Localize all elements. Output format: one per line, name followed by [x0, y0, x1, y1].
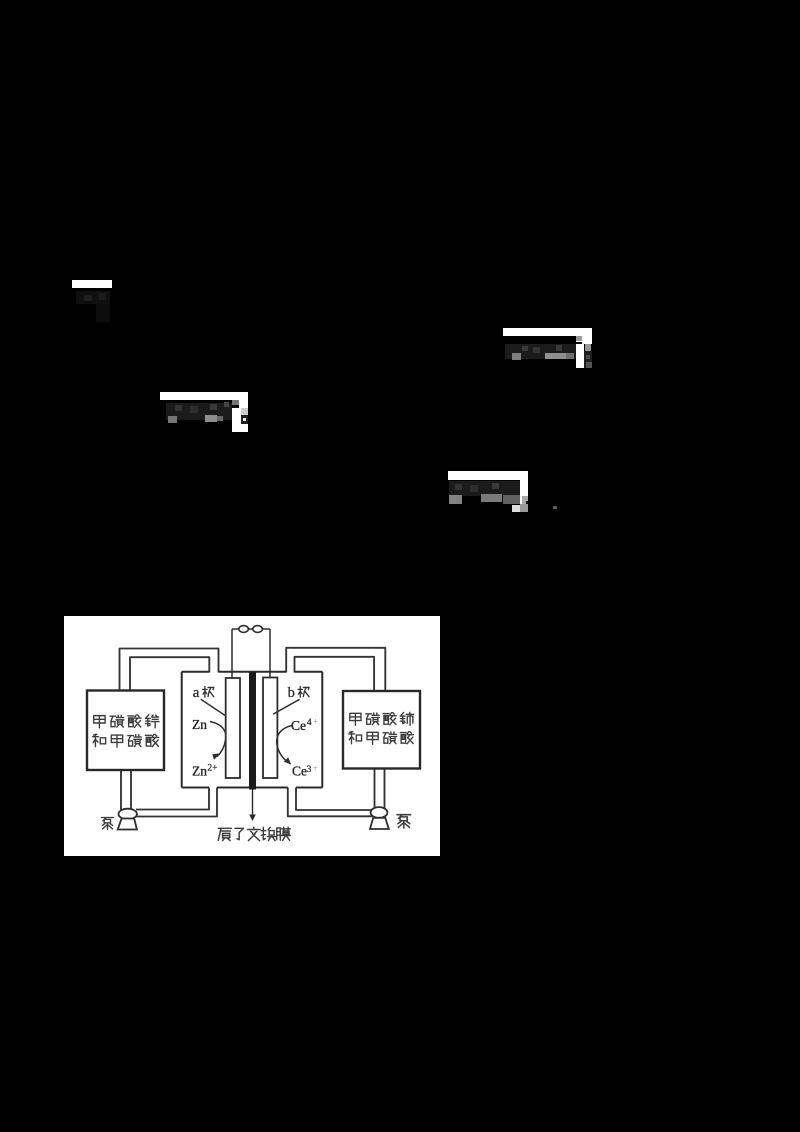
right pump label 泵: [397, 815, 411, 828]
right tank label row1: [350, 712, 414, 725]
electrolytic cell box: [182, 672, 323, 788]
wire: [232, 628, 270, 630]
pipe lower-left upper wall: [136, 788, 209, 810]
pipe left-tank bottom stub: [120, 770, 122, 810]
glyph 极 of a极: [203, 686, 214, 697]
whiteout mark 4 bar: [448, 471, 528, 480]
membrane pointer arrow: [252, 790, 254, 816]
whiteout mark 3 bar: [160, 392, 248, 400]
diagram: zinc-cerium flow battery: [64, 616, 440, 856]
pipe upper-left outer wall: [120, 649, 219, 692]
pipe lower-left lower wall: [136, 788, 217, 817]
curved arrow Ce4+ to Ce3+: [277, 726, 292, 762]
svg-text:2+: 2+: [207, 764, 217, 774]
electrode b (right): [263, 678, 277, 779]
svg-text:Zn: Zn: [192, 764, 207, 779]
svg-text:4: 4: [307, 718, 312, 728]
svg-text:3: 3: [307, 765, 312, 775]
proton exchange membrane (black bar): [249, 672, 256, 790]
faint remnants under mark 1: [76, 291, 110, 304]
pointer line from a极 to electrode: [201, 699, 227, 716]
left tank box 甲磺酸锌和甲磺酸: [87, 691, 164, 771]
whiteout mark 4 faint text remnants: [449, 481, 520, 496]
whiteout mark 2 right mosaic: [576, 336, 592, 344]
whiteout mark 2 faint text remnants: [505, 344, 576, 359]
right tank label row2: [349, 732, 414, 745]
svg-text:+: +: [313, 763, 318, 773]
svg-text:Ce: Ce: [291, 718, 306, 733]
caption 质了交换膜: [218, 827, 290, 841]
pipe lower-right upper wall: [296, 788, 372, 811]
svg-text:a: a: [193, 685, 200, 701]
pipe upper-right outer wall: [286, 648, 385, 692]
terminal circles: [239, 626, 249, 633]
svg-text:+: +: [313, 717, 318, 727]
whiteout mark 3 faint text remnants: [166, 403, 232, 420]
wire to a electrode: [231, 629, 233, 679]
whiteout mark 2 bar: [503, 328, 592, 336]
right tank box 甲磺酸铈和甲磺酸: [343, 691, 420, 769]
left tank label row2: [93, 734, 159, 747]
whiteout mark 1: [72, 280, 112, 289]
svg-text:Zn: Zn: [192, 717, 207, 732]
pointer line from b极 to electrode: [273, 699, 300, 714]
svg-text:b: b: [288, 685, 295, 701]
svg-text:Ce: Ce: [292, 764, 307, 779]
wire to b electrode: [269, 629, 271, 678]
curved arrow Zn to Zn2+: [210, 722, 226, 757]
right pump: [371, 807, 388, 818]
pipe lower-right lower wall: [288, 788, 372, 817]
left pump: [119, 809, 137, 820]
pipe upper-right inner wall: [295, 657, 375, 692]
pipe upper-left inner wall: [130, 657, 209, 691]
electrode a (left): [226, 678, 240, 778]
pipe right-tank bottom stub: [374, 769, 376, 809]
glyph 极 of b极: [298, 686, 309, 697]
whiteout mark 3 strip and mosaic: [232, 400, 248, 433]
left tank label row1: [94, 715, 159, 728]
left pump label 泵: [101, 818, 113, 830]
whiteout mark 4 strip and mosaic: [520, 480, 528, 496]
